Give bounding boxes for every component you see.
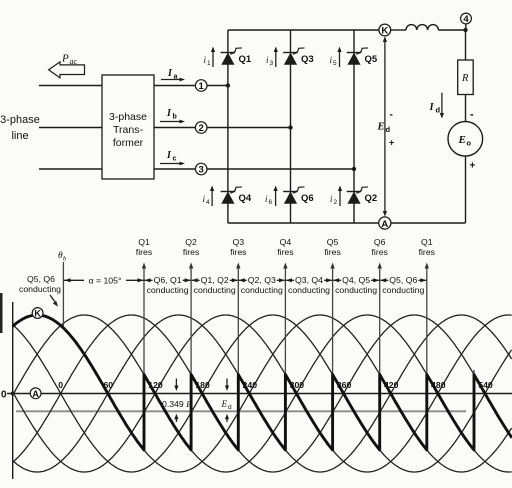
bottom bus wire A xyxy=(228,222,379,224)
svg-text:Q3: Q3 xyxy=(233,237,245,247)
svg-text:Q3, Q4: Q3, Q4 xyxy=(295,275,323,285)
wire node 2 to leg B xyxy=(207,127,291,129)
svg-text:Q2: Q2 xyxy=(365,193,378,204)
current label I_d xyxy=(429,93,445,119)
resistor R xyxy=(458,60,474,95)
firing instant line Q1 xyxy=(143,266,145,450)
wire phase line a (left) xyxy=(39,85,102,87)
wire phase line c (left) xyxy=(39,168,102,170)
svg-text:1: 1 xyxy=(207,60,211,67)
wire E_o to bottom bus xyxy=(465,156,467,223)
svg-text:Q4, Q5: Q4, Q5 xyxy=(342,275,370,285)
sine curve phase ec xyxy=(13,315,512,472)
svg-text:Q5: Q5 xyxy=(365,54,378,65)
svg-text:60: 60 xyxy=(103,380,113,390)
current label I_c xyxy=(160,150,185,165)
svg-text:Q2, Q3: Q2, Q3 xyxy=(248,275,276,285)
svg-text:fires: fires xyxy=(136,247,153,257)
svg-text:K: K xyxy=(381,26,388,37)
svg-text:Q4: Q4 xyxy=(280,237,292,247)
wire inductor to node 4 corner xyxy=(438,29,465,31)
current label i_5 xyxy=(330,47,342,68)
svg-text:d: d xyxy=(228,404,232,411)
interval Q6, Q1 conducting xyxy=(145,275,191,295)
current label i_4 xyxy=(203,186,215,207)
svg-text:Q2: Q2 xyxy=(185,237,197,247)
sine curve phase eb xyxy=(13,315,512,472)
node 3 xyxy=(195,163,207,175)
svg-text:conducting: conducting xyxy=(147,285,189,295)
current label I_b xyxy=(160,108,185,123)
svg-text:Q1: Q1 xyxy=(239,54,252,65)
node 1 xyxy=(195,80,207,92)
wire transformer to node 1 xyxy=(154,85,195,87)
svg-text:2: 2 xyxy=(334,199,338,206)
firing instant line Q4 xyxy=(284,266,286,450)
theta_b marker line xyxy=(62,262,64,326)
svg-text:120: 120 xyxy=(148,380,163,390)
top bus wire K xyxy=(228,29,379,31)
svg-text:Q1, Q2: Q1, Q2 xyxy=(201,275,229,285)
svg-text:Trans-: Trans- xyxy=(113,124,143,136)
svg-text:Q4: Q4 xyxy=(239,193,252,204)
svg-text:Q5, Q6: Q5, Q6 xyxy=(27,274,55,284)
svg-text:E: E xyxy=(458,134,466,146)
svg-text:conducting: conducting xyxy=(335,285,377,295)
svg-text:3: 3 xyxy=(199,165,204,176)
wire A to right branch xyxy=(391,222,466,224)
svg-text:240: 240 xyxy=(243,380,258,390)
firing instant line Q5 xyxy=(332,266,334,450)
sine curve phase -eb xyxy=(13,315,512,472)
current label i_2 xyxy=(330,186,342,207)
wire R to E_o xyxy=(465,95,467,122)
firing instant line (unlabelled, Q2) xyxy=(473,370,475,450)
svg-text:conducting: conducting xyxy=(194,285,236,295)
svg-text:Q5: Q5 xyxy=(327,237,339,247)
svg-text:A: A xyxy=(32,389,39,399)
svg-text:ac: ac xyxy=(70,57,78,66)
current label i_1 xyxy=(204,47,216,68)
svg-text:conducting: conducting xyxy=(288,285,330,295)
current label I_a xyxy=(161,68,185,81)
svg-text:o: o xyxy=(467,139,472,148)
svg-text:d: d xyxy=(436,106,441,115)
zero axis (A potential) xyxy=(7,393,512,395)
svg-text:fires: fires xyxy=(324,247,341,257)
E_d level dimension arrows xyxy=(221,379,233,423)
firing instant line Q6 xyxy=(379,266,381,450)
thyristor Q1 xyxy=(221,48,252,65)
current label i_3 xyxy=(266,47,278,68)
svg-text:540: 540 xyxy=(478,380,493,390)
svg-text:conducting: conducting xyxy=(241,285,283,295)
svg-text:3-phase: 3-phase xyxy=(0,114,40,126)
thyristor Q5 xyxy=(347,48,378,65)
wire K to inductor xyxy=(391,29,406,31)
svg-text:4: 4 xyxy=(206,199,210,206)
sine curve phase -ec xyxy=(13,315,512,472)
thyristor Q3 xyxy=(283,48,313,65)
label Q5,Q6 conducting (left) xyxy=(19,274,61,307)
interval Q5, Q6 conducting xyxy=(380,275,426,295)
thyristor Q6 xyxy=(283,187,313,204)
interval Q3, Q4 conducting xyxy=(286,275,332,295)
svg-text:5: 5 xyxy=(333,60,337,67)
svg-text:b: b xyxy=(173,114,177,121)
svg-text:Q1: Q1 xyxy=(421,237,433,247)
svg-text:former: former xyxy=(113,137,144,149)
interval Q1, Q2 conducting xyxy=(192,275,238,295)
alpha = 105 deg dimension xyxy=(64,276,144,286)
svg-text:fires: fires xyxy=(277,247,294,257)
svg-text:fires: fires xyxy=(183,247,200,257)
node 2 xyxy=(195,122,207,134)
svg-text:α = 105°: α = 105° xyxy=(89,276,122,286)
svg-text:6: 6 xyxy=(269,199,273,206)
svg-text:fires: fires xyxy=(230,247,247,257)
svg-text:-: - xyxy=(390,110,393,121)
svg-text:360: 360 xyxy=(337,380,352,390)
svg-text:E: E xyxy=(221,399,228,409)
wire phase line b (left) xyxy=(39,127,102,129)
transformer T1 box xyxy=(102,75,154,179)
firing instant line Q3 xyxy=(237,266,239,450)
svg-text:+: + xyxy=(470,161,476,172)
node A xyxy=(379,217,391,229)
junction dot leg A xyxy=(226,83,230,87)
svg-text:1: 1 xyxy=(199,81,205,92)
svg-text:P: P xyxy=(61,53,69,65)
svg-text:0: 0 xyxy=(58,380,63,390)
svg-text:Q6, Q1: Q6, Q1 xyxy=(154,275,182,285)
svg-text:conducting: conducting xyxy=(382,285,424,295)
node A circle on axis xyxy=(30,388,41,399)
svg-text:420: 420 xyxy=(384,380,399,390)
bridge leg A vertical wire xyxy=(227,30,229,223)
svg-text:0: 0 xyxy=(1,390,7,401)
0.349E dimension arrows xyxy=(162,379,192,423)
svg-text:E: E xyxy=(377,122,385,133)
firing instant line Q1 xyxy=(426,266,428,450)
svg-text:+: + xyxy=(389,138,394,148)
svg-text:c: c xyxy=(173,156,177,163)
bridge leg C vertical wire xyxy=(353,30,355,223)
svg-text:fires: fires xyxy=(371,247,388,257)
svg-text:Q5, Q6: Q5, Q6 xyxy=(389,275,417,285)
interval Q2, Q3 conducting xyxy=(239,275,285,295)
svg-text:d: d xyxy=(386,125,391,134)
svg-text:fires: fires xyxy=(419,247,436,257)
svg-text:-: - xyxy=(470,109,474,121)
wire node4 to R xyxy=(465,30,467,60)
svg-text:Q3: Q3 xyxy=(301,54,314,65)
firing instant line Q2 xyxy=(190,266,192,450)
thick output voltage curve (K potential) xyxy=(13,315,512,450)
svg-text:Q1: Q1 xyxy=(138,237,150,247)
node 4 xyxy=(465,24,467,30)
svg-text:R: R xyxy=(461,73,469,84)
svg-text:Q6: Q6 xyxy=(374,237,386,247)
sine curve phase -ea xyxy=(13,315,512,472)
source E_o xyxy=(448,122,483,157)
wire node 1 to leg A xyxy=(207,85,228,87)
junction dot under node 4 xyxy=(463,28,467,32)
power flow arrow P_ac xyxy=(49,53,85,78)
svg-text:480: 480 xyxy=(431,380,446,390)
svg-text:A: A xyxy=(381,219,388,230)
svg-text:3: 3 xyxy=(270,60,274,67)
junction dot leg C xyxy=(352,167,356,171)
E_d measurement arrow K to A xyxy=(377,36,395,216)
inductor xyxy=(406,25,438,30)
svg-text:K: K xyxy=(34,309,41,319)
node K xyxy=(379,24,391,36)
svg-text:3-phase: 3-phase xyxy=(109,111,147,123)
wire node 3 to leg C xyxy=(207,168,354,170)
wire transformer to node 3 xyxy=(154,168,195,170)
bridge leg B vertical wire xyxy=(290,30,292,223)
E_d average level line xyxy=(16,410,466,412)
junction dot leg B xyxy=(288,125,292,129)
waveform left border axis xyxy=(12,302,14,479)
svg-text:conducting: conducting xyxy=(19,284,61,294)
current label i_6 xyxy=(265,186,278,207)
thyristor Q4 xyxy=(221,187,252,204)
thyristor Q2 xyxy=(347,187,377,204)
svg-text:300: 300 xyxy=(290,380,305,390)
junction dot on axis xyxy=(11,392,15,396)
node K circle on curve xyxy=(32,308,43,319)
sine curve phase ea xyxy=(13,315,512,472)
wire transformer to node 2 xyxy=(154,127,195,129)
svg-text:4: 4 xyxy=(463,14,469,25)
scan artifact left edge xyxy=(0,293,3,333)
interval Q4, Q5 conducting xyxy=(333,275,379,295)
svg-text:2: 2 xyxy=(199,123,204,134)
svg-text:180: 180 xyxy=(195,380,210,390)
svg-text:0.349 E: 0.349 E xyxy=(162,399,192,409)
svg-text:line: line xyxy=(11,130,28,142)
svg-text:Q6: Q6 xyxy=(301,193,314,204)
